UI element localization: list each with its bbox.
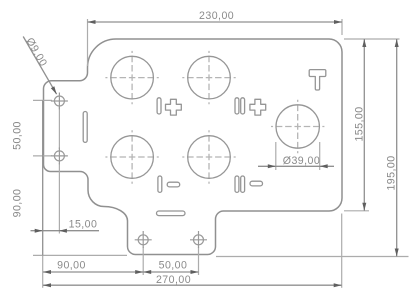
wire: top edge extension to right for 155/195 dims bbox=[344, 38, 400, 40]
dim line 15 bbox=[31, 230, 100, 232]
svg-text:Ø39,00: Ø39,00 bbox=[283, 155, 320, 167]
dimension lines bbox=[23, 22, 397, 285]
centerline circle C3 bbox=[105, 156, 158, 158]
dim line 155 right bbox=[363, 39, 365, 211]
wire: extension below hole ML for 15 dim bbox=[58, 163, 60, 234]
wire: bottom left extension y=255.4 for left 90 dim bbox=[33, 254, 127, 256]
minus slot bottom-left bbox=[167, 182, 180, 187]
centerline circle C5 bbox=[271, 126, 324, 128]
arrows 50 bottom bbox=[143, 270, 151, 274]
arrows 270 bbox=[43, 283, 51, 287]
svg-text:90,00: 90,00 bbox=[11, 189, 23, 218]
wire: extension line left edge of body for 230 dim bbox=[87, 19, 89, 66]
centerline circle C2 bbox=[182, 77, 235, 79]
circle C5 bbox=[276, 105, 319, 148]
hole B2 with centermark bbox=[194, 235, 204, 245]
wire: bottom right extension y=256.5 for 195 dim bbox=[216, 256, 409, 258]
dim line 90 left bbox=[42, 156, 44, 256]
arrows 195 bbox=[395, 39, 399, 47]
dim line 195 far right bbox=[396, 39, 398, 257]
wire: right mid extension y=210.8 for 155 dim bbox=[344, 210, 369, 212]
plate outline bbox=[44, 39, 343, 255]
dim line 230 top bbox=[88, 21, 343, 23]
T mark cutout bbox=[309, 70, 326, 90]
arrows d39 outside bbox=[268, 164, 276, 168]
hole B1 with centermark bbox=[138, 235, 148, 245]
centerline circle C1 bbox=[105, 51, 324, 184]
wire: hole TL left stub bbox=[33, 99, 52, 101]
bar I minus-bottom bbox=[158, 176, 162, 192]
wire: hole ML left stub bbox=[33, 155, 52, 157]
svg-text:195,00: 195,00 bbox=[386, 155, 398, 190]
bars II plus-top-right bbox=[235, 98, 239, 114]
cross plus-top-right bbox=[250, 99, 266, 115]
circle C2 bbox=[188, 56, 231, 99]
arrows 15 outside bbox=[35, 229, 43, 233]
centerline circle C4 bbox=[182, 156, 235, 158]
slot horizontal lower middle bbox=[157, 211, 186, 216]
wire: extension below hole B1 bbox=[142, 247, 144, 275]
svg-text:155,00: 155,00 bbox=[353, 106, 365, 141]
bar I plus-top bbox=[157, 98, 161, 114]
arrow leader d9 bbox=[51, 86, 57, 94]
svg-text:90,00: 90,00 bbox=[57, 259, 86, 271]
small cutout features bbox=[83, 70, 326, 216]
hole ML with centermark bbox=[54, 151, 64, 161]
circle C4 bbox=[188, 136, 231, 179]
svg-text:50,00: 50,00 bbox=[159, 260, 188, 272]
circle C3 bbox=[111, 136, 154, 179]
svg-text:230,00: 230,00 bbox=[199, 10, 234, 22]
dim line 50 bottom bbox=[143, 271, 198, 273]
dim line 90 bottom bbox=[43, 271, 143, 273]
minus slot bottom-right bbox=[250, 181, 263, 186]
wire: vertical link between left holes bbox=[58, 107, 60, 149]
dim line 50 left bbox=[42, 100, 44, 155]
circle C1 bbox=[111, 56, 154, 99]
dim line 270 bottom bbox=[43, 284, 342, 286]
cross plus-top-left bbox=[166, 99, 182, 115]
slot vertical left bbox=[83, 112, 87, 143]
svg-text:50,00: 50,00 bbox=[11, 121, 23, 150]
svg-text:270,00: 270,00 bbox=[156, 274, 191, 286]
arrows 230 bbox=[88, 20, 96, 24]
arrowheads bbox=[35, 20, 399, 287]
leader d9 bbox=[23, 37, 56, 95]
wire: extension lines under circle C5 for d39 dim bbox=[275, 142, 277, 170]
hole TL with centermark bbox=[51, 93, 207, 249]
bars II minus-bottom-right bbox=[235, 176, 239, 192]
wire: extension below right edge for 270 dim bbox=[341, 214, 343, 288]
dim line d39 bbox=[258, 165, 334, 167]
arrows 90 bottom bbox=[43, 270, 51, 274]
wire: extension below hole B2 bbox=[198, 247, 200, 275]
wire: extension line right edge for 230 dim bbox=[341, 19, 343, 35]
arrows 155 bbox=[362, 39, 366, 47]
svg-text:15,00: 15,00 bbox=[69, 218, 98, 230]
wire: left edge extension x=42.5 down to 270 dim bbox=[42, 255, 44, 287]
